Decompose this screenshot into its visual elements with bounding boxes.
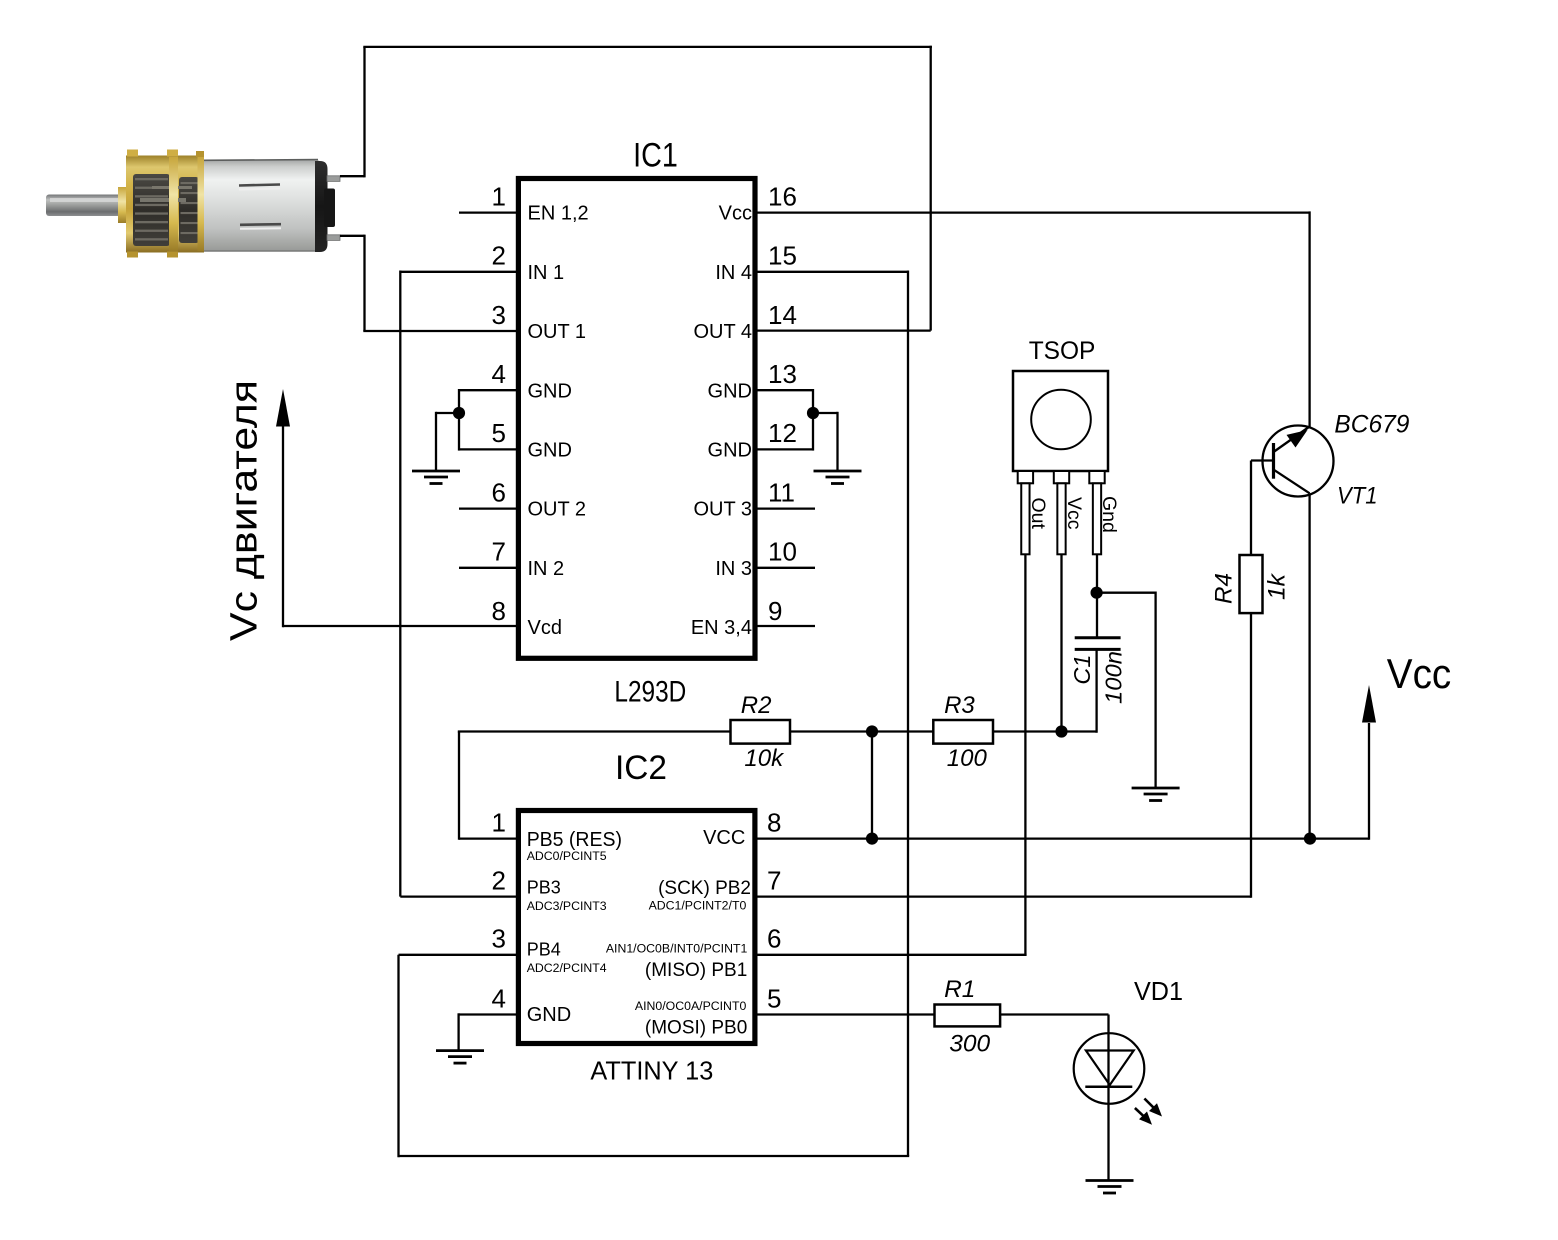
svg-text:IN 3: IN 3 [715,558,752,580]
op IC2 box (ATTINY13) [518,811,755,1044]
svg-text:GND: GND [708,440,752,462]
LED emission arrow 2 [1135,1108,1152,1125]
svg-text:R2: R2 [741,692,772,719]
svg-text:EN 1,2: EN 1,2 [528,203,589,225]
svg-text:4: 4 [492,359,506,389]
LED emission arrow 1 [1144,1099,1162,1117]
LED VD1 circle [1074,1033,1145,1104]
svg-text:13: 13 [768,359,797,389]
svg-text:10k: 10k [744,745,785,772]
wire IC1 pin10 stub [758,567,816,569]
wire IC1 pin4 GND [459,389,516,391]
svg-text:2: 2 [492,241,506,271]
svg-text:12: 12 [768,418,797,448]
motor M1 (photo of N20 micro gearmotor) [46,150,340,258]
junction TSOP Vcc pin [1055,725,1067,737]
wire IC1 pin6 stub [459,507,516,509]
svg-text:Gnd: Gnd [1098,496,1120,533]
wire R1 to LED [1000,1013,1108,1015]
svg-text:2: 2 [492,865,506,895]
TSOP pin Vcc [1054,471,1069,483]
VT1 emitter arrowhead (PNP) [1287,430,1308,448]
junction IC1 gnd left [453,407,465,419]
wire IC1 pin7 stub [459,567,516,569]
wire gnd stub right [813,412,838,414]
junction TSOP Gnd [1091,587,1103,599]
wire R4 top segment [1250,461,1252,556]
resistor R4 1k [1240,555,1263,613]
junction IC1 gnd right [807,407,819,419]
svg-text:PB4: PB4 [527,939,561,959]
svg-text:TSOP: TSOP [1029,337,1096,365]
svg-text:1: 1 [492,807,506,837]
wire IC1 pin15 IN4 [758,271,909,273]
wire bottom loop horizontal [399,1155,910,1157]
svg-text:OUT 3: OUT 3 [693,499,752,521]
svg-text:L293D: L293D [614,676,686,709]
arrowhead Vc двигателя [276,389,290,427]
svg-text:C1: C1 [1069,655,1095,685]
wire R3 to TSOP Vcc and C1 [993,730,1097,732]
svg-text:14: 14 [768,300,797,330]
wire to IC1 pin3 OUT1 [363,330,516,332]
wire TSOP Out down to IC2 PB1 [1024,554,1026,954]
resistor R3 100 [933,720,993,744]
wire VT1 collector drop [1308,493,1310,840]
svg-text:ADC0/PCINT5: ADC0/PCINT5 [527,849,607,863]
svg-text:8: 8 [492,596,506,626]
svg-text:5: 5 [767,983,781,1013]
resistor R1 300 [935,1005,1001,1027]
wire IC1 pin9 stub [758,625,816,627]
svg-text:ADC2/PCINT4: ADC2/PCINT4 [527,961,607,975]
wire gnd drop right [836,412,838,471]
TSOP pin Out [1018,471,1033,483]
svg-text:Out: Out [1027,498,1049,530]
junction collector-VCC [1304,833,1316,845]
svg-text:6: 6 [767,924,781,954]
wire Vcc arrow line [1368,723,1370,840]
wire gnd drop left [435,412,437,471]
wire R4 bottom segment [1250,613,1252,898]
wire gnd stub left [436,412,459,414]
svg-text:R3: R3 [944,692,975,719]
svg-text:OUT 4: OUT 4 [693,321,752,343]
svg-text:IN 4: IN 4 [715,262,752,284]
svg-text:9: 9 [768,596,782,626]
wire IC2 pin4 GND [459,1013,516,1015]
wire motor top to top rail [363,47,365,178]
wire motor bottom terminal lead [340,235,365,237]
wire gnd drop TSOP [1154,592,1156,789]
arrowhead Vcc [1362,685,1376,723]
svg-text:(SCK) PB2: (SCK) PB2 [658,878,751,899]
wire TSOP Gnd down [1096,554,1098,637]
svg-text:GND: GND [527,1004,571,1026]
svg-text:11: 11 [768,477,795,507]
wire Vc motor arrow line [282,420,284,627]
wire C1 bottom to net [1095,649,1097,732]
svg-text:ATTINY 13: ATTINY 13 [590,1055,713,1085]
VT1 emitter diagonal [1274,427,1310,453]
svg-text:100n: 100n [1100,651,1126,704]
svg-text:AIN0/OC0A/PCINT0: AIN0/OC0A/PCINT0 [635,999,747,1013]
wire VT1 base lead [1251,459,1274,461]
wire IC1 pin5 GND [459,448,516,450]
svg-text:GND: GND [708,380,752,402]
wire R2R3 junction down to VCC [871,732,873,839]
svg-text:GND: GND [528,380,572,402]
wire gnd junction right [1097,592,1156,594]
svg-text:Vcd: Vcd [528,617,562,639]
svg-text:7: 7 [492,537,506,567]
wire IC1 pin2 IN1 [400,271,516,273]
junction R2-R3-reset [866,725,878,737]
svg-text:AIN1/OC0B/INT0/PCINT1: AIN1/OC0B/INT0/PCINT1 [606,941,748,955]
svg-text:16: 16 [768,181,797,211]
svg-text:Vcc: Vcc [1063,497,1085,530]
wire IC2 pin2 stub [400,895,516,897]
svg-text:10: 10 [768,537,797,567]
svg-text:PB3: PB3 [527,878,561,898]
wire VT1 emitter drop [1308,211,1310,427]
TSOP lens circle [1031,390,1091,450]
wire IC2 pin8 VCC rail [758,837,1370,839]
ground TSOP [1132,788,1180,801]
svg-text:Vc двигателя: Vc двигателя [224,380,266,641]
wire IC1 pin16 Vcc to transistor [758,211,1310,213]
svg-text:3: 3 [492,300,506,330]
svg-text:15: 15 [768,241,797,271]
svg-text:IC2: IC2 [615,749,667,787]
transistor VT1 BC679 circle [1263,426,1334,497]
svg-text:VD1: VD1 [1134,976,1183,1006]
svg-text:VT1: VT1 [1337,483,1378,510]
svg-text:1: 1 [492,181,506,211]
VT1 collector diagonal [1274,470,1310,494]
svg-text:7: 7 [767,865,781,895]
svg-text:IN 2: IN 2 [528,558,565,580]
svg-text:3: 3 [492,924,506,954]
svg-text:300: 300 [949,1030,990,1057]
wire bottom loop up to IC2 PB4 [397,955,399,1157]
wire IC2 pin3 stub [399,954,517,956]
TSOP pin Gnd [1089,471,1104,483]
svg-text:BC679: BC679 [1334,410,1409,438]
svg-text:GND: GND [528,440,572,462]
wire motor top terminal lead [340,175,365,177]
svg-text:OUT 1: OUT 1 [528,321,587,343]
wire IC1 pin11 stub [758,507,816,509]
LED VD1 cathode bar [1085,1086,1132,1089]
svg-text:EN 3,4: EN 3,4 [691,617,752,639]
junction VCC pin8 [866,833,878,845]
wire top rail [363,46,932,48]
wire IC1 pin13 GND [758,389,814,391]
wire IC1 pin1 stub [459,211,516,213]
svg-text:ADC3/PCINT3: ADC3/PCINT3 [527,899,607,913]
wire motor bottom down [363,235,365,331]
svg-text:(MOSI) PB0: (MOSI) PB0 [645,1017,747,1038]
ground IC2 pin4 [436,1051,484,1064]
wire IN1 to IC2 PB3 vertical [399,271,401,897]
wire TSOP Vcc down [1060,554,1062,731]
svg-text:R4: R4 [1211,573,1238,604]
wire IC2 pin6 to TSOP out [758,954,1027,956]
svg-text:(MISO) PB1: (MISO) PB1 [645,960,747,981]
svg-text:6: 6 [492,477,506,507]
wire IC2 pin1 stub [459,837,516,839]
wire IC1 pin8 Vcd [283,625,516,627]
LED VD1 diode triangle [1086,1051,1134,1086]
ground VD1 [1086,1181,1134,1194]
ground IC1 pins 12,13 [814,471,862,484]
wire R2 to R3 [790,730,933,732]
svg-text:OUT 2: OUT 2 [528,499,587,521]
VT1 base bar [1272,443,1275,479]
wire IC1 pin12 GND [758,448,814,450]
svg-text:IC1: IC1 [633,137,678,175]
svg-text:8: 8 [767,807,781,837]
wire top rail down right side [930,46,932,331]
wire to R2 left [458,730,731,732]
capacitor C1 100n plates [1075,638,1121,650]
wire IC1 pin4-5 junction vertical [458,389,460,451]
svg-text:Vcc: Vcc [1387,650,1451,697]
svg-text:IN 1: IN 1 [528,262,565,284]
wire IN4 long vertical [907,271,909,1157]
TSOP IR receiver body [1013,371,1108,471]
svg-text:1k: 1k [1264,572,1291,600]
svg-text:VCC: VCC [703,827,745,849]
wire IC2 pin7 to R4 [758,895,1252,897]
svg-text:5: 5 [492,418,506,448]
ground IC1 pins 4,5 [412,471,460,484]
op IC1 box (L293D) [518,179,755,659]
wire to IC1 pin14 OUT4 [758,329,931,331]
svg-text:R1: R1 [944,976,975,1003]
wire IC2 pin5 to R1 [758,1013,935,1015]
wire IC1 pin12-13 junction vertical [812,389,814,451]
wire LED drop [1107,1015,1109,1181]
svg-text:PB5 (RES): PB5 (RES) [527,829,622,851]
resistor R2 10k [731,720,791,744]
wire IC2 gnd drop [457,1013,459,1050]
svg-text:Vcc: Vcc [719,203,752,225]
wire IC2 pin1 up [458,732,460,840]
svg-text:ADC1/PCINT2/T0: ADC1/PCINT2/T0 [649,899,747,913]
svg-text:4: 4 [492,983,506,1013]
svg-text:100: 100 [947,745,988,772]
